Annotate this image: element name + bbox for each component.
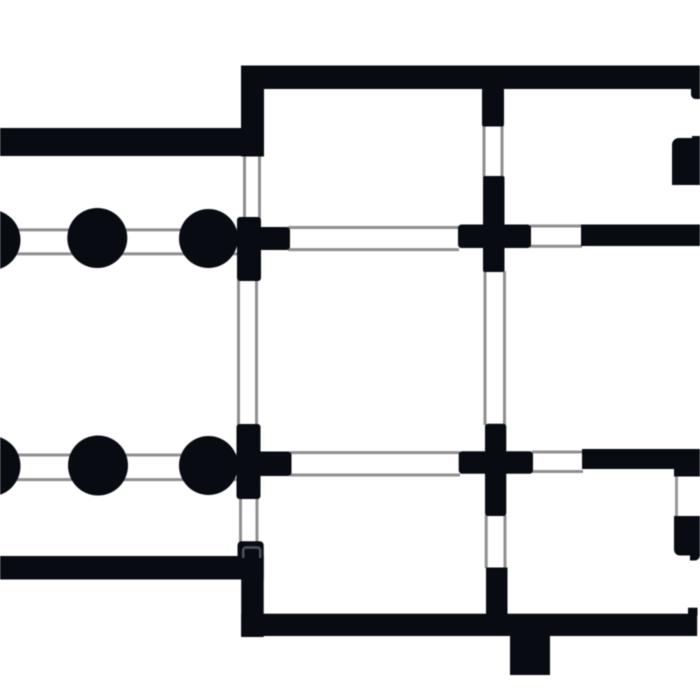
pier row1 arm	[255, 227, 290, 250]
wire mid-axis lower pair	[486, 515, 505, 568]
wire row2 arcade bottom line	[0, 478, 237, 481]
wall bottom	[241, 614, 697, 636]
wire mid-axis middle pair	[485, 271, 505, 425]
wall left	[0, 128, 264, 156]
wire left-axis middle pair	[239, 280, 257, 425]
wire row1 mid top line	[288, 226, 459, 229]
pier mid-axis bottom stub	[486, 568, 508, 615]
wire row1 mid bottom line	[288, 248, 459, 251]
wire row2 door top line	[532, 451, 583, 454]
wall bottom-left	[0, 556, 264, 580]
wire row1 door top line	[530, 225, 582, 228]
column row2 c2	[68, 436, 128, 496]
wire row2 mid top line	[290, 451, 460, 454]
pier row2 vertical	[237, 424, 261, 499]
pier mid-axis top stub	[482, 88, 504, 127]
wall row2 right foot	[674, 449, 700, 477]
cross row1 arm	[458, 225, 531, 249]
wire row2 door bottom line	[532, 470, 583, 473]
cross row2 arm	[459, 451, 533, 474]
notch gray inset outline in bottom pier	[243, 548, 260, 559]
wire left-axis lower pair	[241, 498, 258, 542]
column row2 c3	[179, 436, 238, 495]
wire right-edge single line	[675, 476, 678, 517]
column row2 c1	[0, 436, 21, 497]
wire row2 arcade top line	[0, 454, 237, 457]
wall bottom vertical connector	[241, 556, 264, 637]
pier mid-axis upper vertical	[483, 176, 505, 272]
column row1 c2	[67, 208, 127, 268]
cross row2 vertical	[485, 424, 506, 516]
wall bottom right rise	[688, 608, 698, 616]
wall northwest vertical	[241, 66, 264, 157]
column row1 c1	[0, 210, 21, 271]
column row1 c3	[179, 209, 238, 268]
wall right block lower	[674, 516, 700, 561]
wire row1 arcade bottom line	[0, 252, 237, 255]
pier bottom with notch	[238, 541, 264, 557]
wire mid-axis upper pair	[484, 126, 502, 177]
wall row2 right	[582, 449, 700, 469]
wall row1 right	[581, 225, 700, 247]
pier row1 vertical	[237, 217, 261, 281]
wall top-right tab	[691, 89, 700, 99]
wire left-axis upper pair	[245, 155, 260, 218]
wire row2 mid bottom line	[290, 474, 460, 477]
pier row2 arm	[255, 452, 292, 477]
wire row1 arcade top line	[0, 228, 237, 231]
wire row1 door bottom line	[530, 245, 582, 248]
wall top	[241, 66, 700, 90]
wall right block upper	[672, 136, 700, 185]
annex bottom square	[510, 636, 550, 675]
